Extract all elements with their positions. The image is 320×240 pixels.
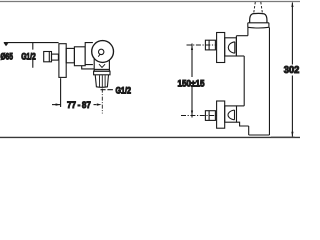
bonnet (85, 43, 93, 65)
dim 302 line lower (291, 76, 293, 137)
valve body block (74, 47, 85, 66)
dim 77-87 line left tail (52, 104, 60, 106)
indicator V under knob (99, 64, 105, 67)
svg-text:G1/2: G1/2 (21, 51, 36, 61)
dim 150 line lower (191, 87, 193, 118)
top nut facet (208, 40, 210, 50)
dim 302 line upper (291, 3, 293, 65)
dim 150 top arrow (191, 45, 193, 50)
top nut (205, 40, 215, 50)
spout centerline (101, 89, 103, 114)
knob inner circle (99, 49, 104, 54)
top shelf (236, 35, 248, 37)
top sub-step (236, 55, 244, 57)
dim 150 bottom arrow (191, 111, 193, 116)
dim 302 bottom arrow (291, 132, 293, 137)
top flange (217, 33, 225, 63)
pipe break dashed right (261, 2, 263, 13)
bottom frame line (0, 136, 300, 138)
pipe break dashed left (254, 2, 256, 13)
body under-step (82, 66, 95, 69)
bottom shelf (237, 105, 245, 107)
svg-text:150±15: 150±15 (178, 78, 206, 89)
collar (248, 23, 269, 28)
wall nut (44, 52, 52, 62)
body left edge upper (247, 27, 249, 35)
dim 302 bottom extension (271, 136, 295, 138)
dim 77-87 right arrow (97, 103, 102, 105)
knob circle (92, 41, 114, 63)
bottom connector centerline (181, 115, 217, 117)
wall nut facet line (48, 52, 50, 62)
body neck (66, 48, 74, 62)
svg-text:302: 302 (284, 65, 300, 76)
top union curve (228, 42, 235, 53)
svg-text:G1/2: G1/2 (116, 86, 132, 96)
top frame line (0, 1, 300, 3)
top block right edge (235, 36, 237, 56)
cone sides to spout (94, 59, 109, 70)
dim 77-87 right arrow line (94, 104, 97, 106)
bottom union curve (228, 110, 235, 120)
G1/2 leader right (101, 89, 113, 91)
spout thread lines (100, 75, 106, 87)
bottom sub-step (237, 122, 249, 126)
bottom nut (205, 111, 215, 121)
spout shoulder band 2 (94, 71, 110, 75)
top union block (225, 38, 237, 56)
wall stub (52, 54, 59, 60)
dim 150 line upper (191, 44, 193, 78)
body left edge lower (248, 126, 250, 135)
escutcheon flange (59, 44, 66, 78)
extension line G1/2 (broken by text) (32, 42, 34, 67)
top connector centerline (187, 44, 218, 46)
leader line for O65 (4, 42, 59, 44)
dim 77-87 left arrow (56, 103, 61, 105)
body bottom edge (249, 134, 270, 136)
collar bottom curve (248, 26, 269, 29)
bottom nut facet (208, 111, 210, 121)
dim 302 top arrow (291, 2, 293, 7)
spout tube (95, 75, 108, 88)
knob lever tail (98, 54, 100, 57)
body right edge (268, 27, 270, 135)
bottom flange (217, 101, 225, 128)
spout shoulder band 1 (94, 69, 109, 71)
svg-text:77 - 87: 77 - 87 (67, 100, 91, 111)
dim 77-87 extension line (60, 78, 62, 107)
bottom union block (225, 106, 237, 122)
leader arrowhead (4, 43, 9, 47)
mid body left edge (243, 56, 245, 106)
cap dome (250, 13, 267, 22)
svg-text:Ø65: Ø65 (0, 51, 13, 61)
